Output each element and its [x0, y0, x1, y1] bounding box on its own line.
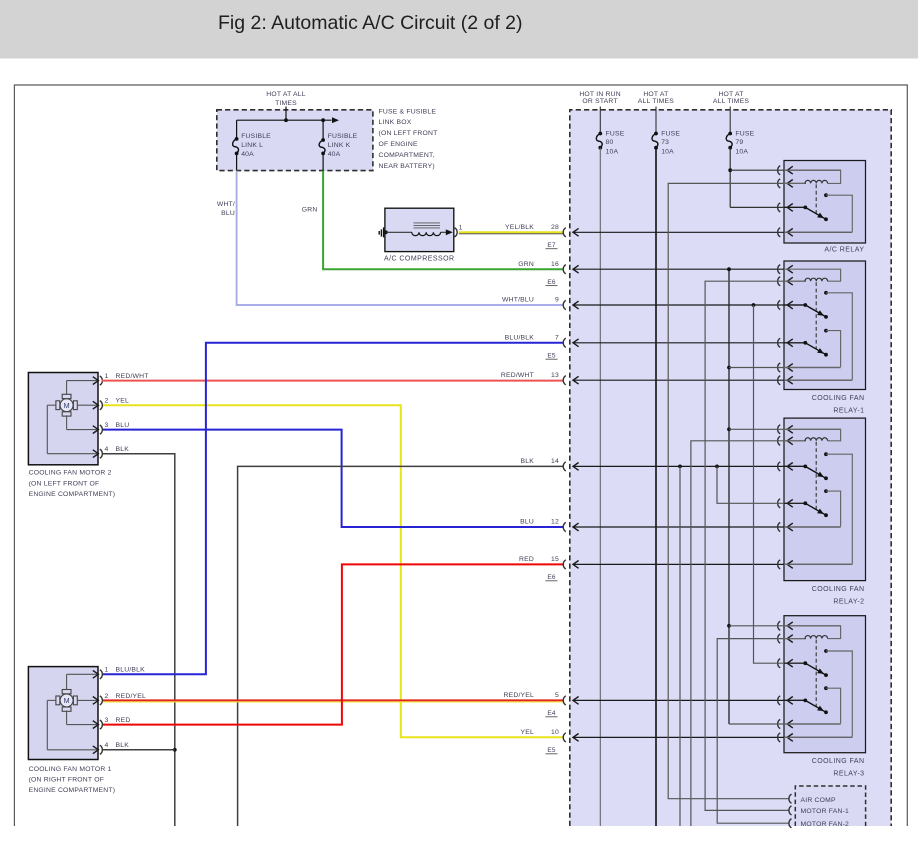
wire relay-1 coil- to MOTOR FAN-1 [705, 281, 806, 810]
fuse 79 output wire [728, 148, 732, 208]
cooling fan relay-3 pin6 rail stub [784, 736, 852, 738]
svg-text:FUSE: FUSE [661, 130, 680, 137]
svg-text:LINK L: LINK L [241, 142, 263, 149]
svg-text:LINK BOX: LINK BOX [379, 119, 412, 126]
svg-text:40A: 40A [328, 151, 341, 158]
svg-text:RELAY-2: RELAY-2 [833, 598, 864, 605]
svg-text:1: 1 [105, 373, 109, 380]
cooling fan relay-1 pin5 rail stub [784, 367, 841, 369]
GRN branch to relay-3 pin5 [729, 723, 841, 725]
cooling fan relay-3 switch 1 [784, 649, 828, 677]
cooling fan relay-2 box [784, 418, 866, 580]
connector pin 5 RED/YEL [504, 692, 806, 717]
svg-text:15: 15 [551, 556, 559, 563]
title bar [0, 0, 918, 59]
svg-text:RED: RED [116, 717, 131, 724]
svg-text:RED/YEL: RED/YEL [116, 693, 147, 700]
motor 1 internal wires [47, 674, 95, 750]
connector pin 28 YEL/BLK [505, 224, 852, 249]
A/C relay switch 1 [784, 193, 828, 221]
compressor coil core lines [414, 223, 441, 228]
cooling fan relay-2 pin5 rail stub [784, 526, 841, 528]
label cooling fan relay-3 [812, 758, 865, 778]
svg-text:13: 13 [551, 372, 559, 379]
A/C relay coil [784, 180, 828, 183]
bus wire in fusible link box [237, 117, 339, 123]
svg-text:WHT/BLU: WHT/BLU [502, 297, 534, 304]
connector pin 15 RED [519, 556, 852, 581]
svg-text:BLU/BLK: BLU/BLK [505, 334, 535, 341]
cooling fan relay-3 switch 2 [784, 686, 828, 714]
motor 2 internal wires [47, 381, 95, 454]
wire fuse 79 to A/C relay coil [730, 169, 840, 171]
connector pin 16 GRN [518, 261, 784, 286]
A/C relay coil feed loop [784, 170, 841, 183]
svg-text:4: 4 [105, 446, 109, 453]
svg-text:AIR COMP: AIR COMP [801, 797, 836, 804]
A/C relay switch 1 contact rail [826, 195, 852, 232]
svg-text:HOT IN RUN: HOT IN RUN [579, 91, 621, 98]
cooling fan relay-1 box [784, 261, 866, 390]
svg-text:BLK: BLK [116, 742, 130, 749]
cooling fan motor 2 box [28, 373, 98, 465]
svg-text:7: 7 [555, 334, 559, 341]
connector pin 13 RED/WHT [501, 372, 852, 385]
cooling fan relay-3 switch 1 contact rail [826, 651, 852, 737]
air comp / motor fan connector box [795, 786, 865, 828]
svg-text:RED/YEL: RED/YEL [504, 692, 535, 699]
svg-text:ENGINE COMPARTMENT): ENGINE COMPARTMENT) [29, 787, 116, 794]
cooling fan relay-2 pin6 rail stub [784, 563, 852, 565]
wire YEL motor2 pin2 to pin 10 [103, 405, 563, 737]
fuse and fusible link box [217, 110, 373, 171]
svg-text:E5: E5 [547, 747, 556, 754]
relay-3 pin connectors [778, 621, 793, 742]
svg-text:WHT/: WHT/ [217, 201, 235, 208]
svg-text:TIMES: TIMES [275, 100, 297, 107]
motor 1 pin 2 [93, 693, 146, 705]
cooling fan relay-2 coil [784, 438, 828, 441]
cooling fan relay-1 armature dashed link [815, 282, 817, 349]
connector pin 12 BLU [520, 519, 840, 532]
svg-text:HOT AT: HOT AT [643, 91, 668, 98]
wire relay-3 coil- to MOTOR FAN-2 [717, 639, 806, 824]
svg-text:A/C RELAY: A/C RELAY [824, 246, 864, 253]
cooling fan relay-3 box [784, 616, 866, 753]
wire YEL/BLK compressor to pin 28 [459, 232, 563, 234]
svg-text:COOLING FAN MOTOR 2: COOLING FAN MOTOR 2 [29, 470, 112, 477]
motor 2 pin 1 [93, 373, 149, 385]
motor M symbol (fan motor 1) [56, 690, 77, 712]
svg-text:28: 28 [551, 224, 559, 231]
label HOT AT ALL TIMES (fuse 73) [638, 91, 674, 105]
cooling fan relay-3 coil feed loop [784, 626, 841, 639]
AIR COMP connector [789, 794, 792, 803]
svg-text:10A: 10A [735, 149, 748, 156]
cooling fan relay-2 armature dashed link [815, 442, 817, 510]
BLK 14 branch to relay-2 switch2 [715, 465, 806, 504]
svg-text:RELAY-1: RELAY-1 [833, 407, 864, 414]
cooling fan relay-1 pin6 rail stub [784, 379, 852, 381]
svg-text:(ON LEFT FRONT OF: (ON LEFT FRONT OF [29, 480, 100, 487]
junction motor BLK wires [103, 748, 177, 752]
svg-text:FUSE & FUSIBLE: FUSE & FUSIBLE [379, 108, 437, 115]
A/C compressor box [385, 208, 454, 251]
svg-text:YEL: YEL [521, 729, 534, 736]
svg-text:COOLING FAN: COOLING FAN [812, 395, 865, 402]
svg-text:GRN: GRN [518, 261, 534, 268]
wire RED motor1 pin3 to pin 15 [103, 564, 563, 724]
cooling fan relay-3 switch 2 contact rail [826, 688, 841, 723]
svg-text:BLU: BLU [116, 422, 130, 429]
label HOT IN RUN OR START [579, 91, 621, 105]
svg-text:E5: E5 [547, 352, 556, 359]
wire BLU motor2 pin3 to pin 12 [103, 430, 563, 527]
svg-text:RED/WHT: RED/WHT [501, 372, 534, 379]
svg-text:E7: E7 [547, 242, 556, 249]
GRN branch to relay-1 pin5 [729, 367, 841, 369]
cooling fan relay-1 coil [784, 278, 828, 281]
wire BLK pin 14 [238, 466, 564, 826]
hot feed stub [285, 107, 287, 121]
WHT/BLU branch to relay-3 switch [752, 303, 806, 663]
cooling fan relay-2 switch 1 contact rail [826, 454, 852, 564]
motor M symbol (fan motor 2) [56, 394, 77, 416]
MOTOR FAN-2 connector [789, 819, 792, 828]
svg-text:E6: E6 [547, 279, 556, 286]
svg-text:ENGINE COMPARTMENT): ENGINE COMPARTMENT) [29, 491, 116, 498]
compressor pin 1 connector [455, 225, 463, 237]
svg-text:BLU: BLU [520, 519, 534, 526]
A/C relay pin connectors [778, 166, 793, 237]
svg-text:FUSIBLE: FUSIBLE [328, 133, 358, 140]
svg-text:RELAY-3: RELAY-3 [833, 771, 864, 778]
svg-text:14: 14 [551, 458, 559, 465]
fuse 73 output wire [655, 148, 657, 826]
connector pin 7 BLU/BLK [505, 334, 805, 359]
motor 1 pin 1 [93, 667, 145, 679]
wire A/C relay coil- to AIR COMP [668, 183, 806, 798]
A/C relay armature dashed link [815, 184, 817, 213]
svg-text:40A: 40A [241, 151, 254, 158]
cooling fan relay-1 switch 2 [784, 329, 828, 357]
relay-1 pin connectors [778, 265, 793, 385]
svg-text:MOTOR FAN-1: MOTOR FAN-1 [801, 808, 850, 815]
svg-text:LINK K: LINK K [328, 142, 351, 149]
cooling fan relay-3 coil [784, 636, 828, 639]
svg-text:10: 10 [551, 729, 559, 736]
svg-text:M: M [64, 696, 70, 705]
svg-text:3: 3 [105, 422, 109, 429]
svg-text:RED/WHT: RED/WHT [116, 373, 149, 380]
svg-text:2: 2 [105, 693, 109, 700]
GRN branch to relay-3 coil+ [729, 625, 841, 627]
svg-text:BLK: BLK [116, 446, 130, 453]
label cooling fan motor 1 [29, 766, 116, 794]
compressor clutch waves [379, 227, 388, 237]
cooling fan relay-3 pin5 rail stub [784, 723, 841, 725]
svg-text:1: 1 [105, 667, 109, 674]
svg-text:ALL TIMES: ALL TIMES [713, 98, 749, 105]
svg-text:E4: E4 [547, 710, 556, 717]
svg-text:COMPARTMENT,: COMPARTMENT, [379, 152, 435, 159]
svg-text:FUSE: FUSE [606, 130, 625, 137]
cooling fan motor 1 box [28, 667, 98, 760]
label HOT AT ALL TIMES (left) [266, 91, 305, 107]
motor 2 pin 4 [93, 446, 129, 458]
svg-text:OF ENGINE: OF ENGINE [379, 141, 418, 148]
svg-text:E6: E6 [547, 574, 556, 581]
cooling fan relay-1 coil feed loop [784, 269, 841, 281]
svg-text:(ON RIGHT FRONT OF: (ON RIGHT FRONT OF [29, 776, 104, 783]
motor 2 pin 2 [93, 398, 129, 410]
svg-text:ALL TIMES: ALL TIMES [638, 98, 674, 105]
GRN branch to relay-2 coil+ [729, 428, 841, 430]
wire WHT/BLU from fusible link L [217, 171, 563, 305]
compressor clutch coil [386, 232, 441, 235]
A/C relay pin6 rail stub [784, 231, 852, 233]
svg-text:16: 16 [551, 261, 559, 268]
svg-text:1: 1 [459, 225, 463, 232]
label cooling fan relay-1 [812, 395, 865, 415]
svg-text:2: 2 [105, 398, 109, 405]
svg-text:BLU: BLU [221, 210, 235, 217]
motor 1 pin 3 [93, 717, 131, 729]
svg-text:3: 3 [105, 717, 109, 724]
svg-text:GRN: GRN [302, 206, 318, 213]
svg-text:9: 9 [555, 297, 559, 304]
motor 1 pin 4 [93, 742, 129, 754]
svg-text:73: 73 [661, 139, 669, 146]
svg-text:OR START: OR START [582, 98, 617, 105]
compressor output arrow [441, 229, 453, 235]
svg-text:COOLING FAN: COOLING FAN [812, 586, 865, 593]
fusible link L [233, 120, 272, 170]
connector pin 9 WHT/BLU [502, 297, 805, 310]
svg-text:Fig 2: Automatic A/C Circuit (: Fig 2: Automatic A/C Circuit (2 of 2) [218, 12, 523, 34]
wire relay-2 coil- off-page [691, 441, 806, 826]
cooling fan relay-2 switch 2 [784, 489, 828, 517]
svg-text:BLU/BLK: BLU/BLK [116, 667, 146, 674]
cooling fan relay-2 switch 2 contact rail [826, 491, 841, 526]
svg-text:79: 79 [735, 139, 743, 146]
fuse 73 [652, 107, 680, 156]
svg-text:(ON LEFT FRONT: (ON LEFT FRONT [379, 130, 438, 137]
fuse 80 output wire [599, 148, 601, 826]
label A/C COMPRESSOR [384, 256, 454, 263]
cooling fan relay-3 armature dashed link [815, 640, 817, 707]
connector pin 14 BLK [521, 458, 805, 471]
svg-text:FUSE: FUSE [735, 130, 754, 137]
label cooling fan relay-2 [812, 586, 865, 606]
fuse 80 [596, 107, 624, 156]
svg-text:YEL: YEL [116, 398, 129, 405]
svg-text:COOLING FAN MOTOR 1: COOLING FAN MOTOR 1 [29, 766, 112, 773]
motor 2 pin 3 [93, 422, 130, 434]
svg-text:MOTOR FAN-2: MOTOR FAN-2 [801, 821, 850, 828]
fusible link K [319, 120, 358, 170]
svg-text:COOLING FAN: COOLING FAN [812, 758, 865, 765]
label fuse box location [379, 108, 438, 170]
label A/C relay [824, 246, 864, 253]
wire BLK motor2 pin4 [103, 454, 175, 826]
svg-text:A/C COMPRESSOR: A/C COMPRESSOR [384, 256, 454, 263]
relay-2 pin connectors [778, 425, 793, 569]
svg-text:5: 5 [555, 692, 559, 699]
label cooling fan motor 2 [29, 470, 116, 498]
svg-text:FUSIBLE: FUSIBLE [241, 133, 271, 140]
fuse 79 [726, 107, 754, 156]
svg-text:4: 4 [105, 742, 109, 749]
connector pin 10 YEL [521, 729, 853, 754]
wire RED/YEL motor1 pin2 to pin 5 [103, 700, 563, 702]
svg-text:YEL/BLK: YEL/BLK [505, 224, 534, 231]
svg-text:M: M [64, 401, 70, 410]
A/C relay box [784, 161, 866, 244]
cooling fan relay-2 switch 1 [784, 452, 828, 480]
engine compartment dashed box [570, 110, 891, 826]
BLK 14 branch off-page [678, 465, 682, 827]
svg-text:10A: 10A [606, 149, 619, 156]
wire BLU/BLK motor1 pin1 to pin 7 [103, 343, 563, 675]
GRN net vertical [727, 267, 731, 724]
label HOT AT ALL TIMES (fuse 79) [713, 91, 749, 105]
svg-text:RED: RED [519, 556, 534, 563]
svg-text:80: 80 [606, 139, 614, 146]
wire RED/WHT motor2 pin1 to pin 13 [102, 380, 564, 382]
cooling fan relay-1 switch 2 contact rail [826, 331, 841, 367]
cooling fan relay-1 switch 1 contact rail [826, 293, 852, 380]
svg-text:NEAR BATTERY): NEAR BATTERY) [379, 163, 435, 170]
svg-text:10A: 10A [661, 149, 674, 156]
svg-text:12: 12 [551, 519, 559, 526]
MOTOR FAN-1 connector [789, 806, 792, 815]
cooling fan relay-1 switch 1 [784, 291, 828, 319]
wire GRN from fusible link K [302, 171, 563, 270]
svg-text:HOT AT ALL: HOT AT ALL [266, 91, 305, 98]
svg-text:HOT AT: HOT AT [718, 91, 743, 98]
cooling fan relay-2 coil feed loop [784, 429, 841, 441]
wire fuse 79 to A/C relay switch [730, 206, 806, 208]
svg-text:BLK: BLK [521, 458, 535, 465]
